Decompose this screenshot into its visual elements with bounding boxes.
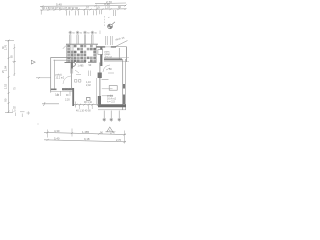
hall vertical marks: [89, 71, 91, 77]
riser symbol 2: [76, 31, 79, 44]
stair block inner wall pair: [71, 44, 73, 62]
left dimension end bar: [5, 40, 14, 42]
interior dim ticks: [75, 104, 99, 106]
stair block left edge: [66, 44, 68, 62]
left vertical dimension line: [8, 40, 10, 113]
corridor wall cap: [98, 73, 102, 79]
right wing top wall right segment: [111, 46, 116, 48]
door arc marks: [106, 68, 114, 73]
door hang ticks below wall: [61, 91, 71, 96]
left room top wall double: [51, 57, 71, 59]
corridor wall vertical upper thin: [99, 63, 101, 73]
left small cross mark: [13, 60, 17, 64]
dashed axis line: [103, 16, 105, 26]
svg-text:90: 90: [4, 98, 8, 102]
bottom right wall: [98, 104, 126, 107]
svg-text:1,0: 1,0: [12, 110, 16, 113]
bottom wall hatch marks: [64, 88, 73, 91]
bottom crossing extension lines: [48, 129, 125, 144]
stray dot left: [38, 124, 39, 125]
svg-text:90 1,50 90 97 90 1,07 90 97 90: 90 1,50 90 97 90 1,07 90 97 90: [42, 6, 79, 10]
svg-text:4,30: 4,30: [54, 129, 60, 133]
svg-text:9,18: 9,18: [84, 137, 90, 141]
left dim end second bar: [16, 112, 25, 117]
right outer wall upper: [126, 47, 128, 62]
svg-text:90 1,10: 90 1,10: [84, 101, 93, 104]
drain symbol 3: [118, 111, 121, 122]
bottom lower ticks: [47, 139, 126, 143]
hall door marks: [75, 80, 81, 83]
riser symbol 3: [83, 31, 86, 44]
window extension marks below chain line: [66, 10, 115, 16]
interior dim vertical tick: [75, 102, 77, 108]
drain symbol 1: [103, 111, 106, 122]
west arrow triangle: [31, 60, 35, 64]
chain dimension ticks: [42, 8, 127, 11]
west arrow line: [36, 77, 51, 79]
second dimension ticks: [42, 5, 127, 8]
svg-text:2,02: 2,02: [86, 84, 91, 87]
svg-text:2,20: 2,20: [65, 99, 70, 102]
bath room partition wall vertical: [100, 48, 102, 67]
svg-text:1,485: 1,485: [78, 65, 85, 68]
svg-text:40 1,10 40 90: 40 1,10 40 90: [76, 110, 91, 113]
left room left wall double: [50, 57, 52, 92]
svg-text:1,07: 1,07: [105, 5, 111, 9]
bottom dimension line lower: [44, 140, 126, 142]
left dimension ticks: [8, 40, 10, 113]
lower-left dimension line: [42, 103, 59, 105]
swing arc small: [63, 76, 71, 84]
bottom dimension line upper: [44, 132, 126, 134]
bench mark triangle: [106, 127, 115, 132]
riser symbol 4: [91, 31, 94, 44]
right wing top wall left segment: [97, 46, 106, 48]
secondary left dimension line: [13, 44, 15, 76]
left room right wall hatched: [71, 62, 73, 69]
right wing top wall thin part: [116, 46, 127, 48]
wall marks right of room: [71, 69, 73, 74]
interior dim hanging strokes: [80, 105, 93, 109]
svg-text:5,40: 5,40: [56, 2, 62, 6]
bottom upper ticks: [47, 132, 126, 136]
bottom wall lower edge line: [98, 109, 126, 111]
small plus mark: [27, 111, 31, 115]
bottom wall thin line: [51, 91, 75, 93]
hall swing strokes: [75, 70, 81, 75]
svg-text:1,485: 1,485: [82, 130, 89, 134]
corridor wall second line: [96, 78, 98, 104]
toilet fixture: [87, 98, 91, 101]
door arc in right room: [103, 65, 110, 72]
left end extension stroke: [40, 11, 42, 15]
stair block cell texture: [67, 45, 96, 62]
second dimension line: [40, 5, 126, 8]
svg-text:1,52: 1,52: [4, 83, 8, 89]
interior dimension line: [74, 104, 99, 106]
bath bottom wall: [104, 58, 122, 60]
door lintel line: [102, 79, 109, 81]
left room bottom wall segments: [51, 88, 57, 90]
small axis dash: [99, 31, 101, 35]
svg-text:5,40: 5,40: [54, 136, 60, 140]
thin wall below column: [71, 69, 73, 89]
drain symbol 2: [110, 111, 113, 122]
bottom right wall corner blob: [98, 96, 101, 106]
svg-text:0,9: 0,9: [96, 6, 100, 10]
lower-left dim tick: [44, 102, 46, 106]
bath bottom wall extension lines: [104, 58, 129, 62]
corridor wall vertical lower: [99, 78, 101, 104]
room door rectangle: [109, 86, 117, 91]
right wall dark segments: [123, 84, 125, 104]
small mark below: [108, 16, 110, 18]
svg-text:h = 2,5: h = 2,5: [107, 101, 115, 104]
stair block bottom wall segments: [65, 61, 97, 63]
right outer wall lower double: [122, 59, 124, 110]
center wall lower: [72, 88, 74, 106]
door extension pair 1: [106, 36, 108, 45]
wall fixture white box: [98, 50, 103, 55]
left dim end bar: [5, 112, 13, 114]
window sill lines: [102, 88, 113, 90]
riser symbol 1: [69, 31, 72, 44]
secondary left ticks: [13, 47, 15, 75]
column blob on wall: [71, 62, 75, 66]
svg-text:2,47: 2,47: [110, 131, 116, 135]
svg-text:2,70: 2,70: [116, 138, 122, 142]
level marker symbol: [108, 22, 115, 29]
stair block left tick: [63, 46, 66, 49]
door sill thin line: [105, 46, 111, 48]
chain dimension line: [40, 9, 126, 10]
stair block top wall: [66, 43, 98, 45]
top overall dimension line: [95, 2, 126, 5]
bath partition right: [118, 48, 120, 60]
svg-text:12,2 m2: 12,2 m2: [56, 77, 65, 80]
stair block right edge: [95, 44, 97, 62]
door extension pair 2: [111, 36, 113, 45]
roof diagonal annotation: [114, 41, 128, 48]
